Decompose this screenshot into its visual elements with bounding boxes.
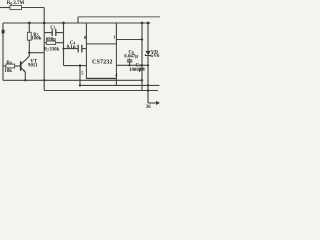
wire pin1 horizontal y=39.5	[116, 39, 142, 41]
wire jog link x=78	[77, 17, 79, 23]
svg-text:100k: 100k	[31, 37, 41, 42]
transistor Q1 collector lead	[21, 56, 29, 64]
svg-text:1000p: 1000p	[129, 68, 142, 73]
svg-text:R6 2.7M: R6 2.7M	[7, 1, 25, 6]
svg-text:R7330k: R7330k	[44, 48, 60, 53]
transistor Q1 emitter arrow	[23, 70, 26, 73]
wire bottom line y=90.5	[44, 90, 158, 92]
wire C7 rail upper x=142	[141, 23, 143, 68]
wire top bus y=23	[3, 22, 150, 24]
wire pin4 stub down	[115, 78, 117, 85]
node bus end	[141, 79, 143, 81]
node zener top	[147, 22, 150, 25]
svg-text:0.047µ: 0.047µ	[124, 55, 138, 60]
svg-text:C5: C5	[50, 26, 56, 31]
node pin5 drop	[79, 64, 81, 66]
capacitor C7 plates	[140, 68, 145, 70]
capacitor C5 plates	[52, 29, 56, 36]
node pin5 drop bottom	[79, 84, 81, 86]
transistor Q1 base bar	[20, 61, 22, 71]
wire bottom bus y=80.3	[3, 79, 142, 81]
node C7 rail top	[141, 22, 144, 25]
wire vertical rail x=44	[43, 8, 45, 81]
IC U1 CS7232 box	[86, 44, 116, 79]
node pin2 end	[147, 64, 149, 66]
wire pin2 horizontal y=65.3	[116, 64, 148, 66]
svg-text:R8: R8	[6, 61, 12, 66]
wire emitter vertical	[24, 72, 26, 80]
capacitor C6 plates	[127, 60, 132, 62]
wire R6 left lead	[0, 7, 10, 9]
node R5 top	[28, 22, 31, 25]
wire R8 right lead (base lead)	[15, 65, 21, 67]
wire R7 left lead	[44, 42, 46, 44]
wire R7 right lead	[56, 42, 64, 44]
node rail44 top	[43, 22, 46, 25]
wire output corner y=103	[148, 102, 157, 104]
svg-text:0.1µ: 0.1µ	[67, 45, 76, 50]
wire C4 right lead	[82, 48, 87, 50]
resistor R5 body	[27, 32, 31, 40]
zener diode VD triangle	[146, 51, 151, 55]
svg-text:680p: 680p	[46, 38, 56, 43]
zener diode VD bar	[145, 54, 150, 57]
wire right rail x=63.5	[63, 23, 65, 66]
svg-text:1: 1	[113, 35, 115, 40]
wire R6 right lead	[22, 7, 45, 9]
transistor Q1 emitter lead	[21, 68, 25, 72]
node rail44 bus	[43, 79, 45, 81]
wire zener rail upper	[147, 23, 149, 51]
wire collector node horizontal	[29, 52, 44, 54]
node collector	[28, 52, 30, 54]
background	[0, 0, 160, 110]
wire C4 left lead	[64, 48, 79, 50]
node emitter bus	[24, 79, 26, 81]
node pin1 wire end	[141, 38, 143, 40]
wire zener rail lower	[147, 56, 149, 104]
node C4 tee	[62, 48, 64, 50]
wire C5 right lead	[56, 32, 64, 34]
IC U1 bottom edge emphasis	[86, 78, 116, 80]
resistor R8 body	[6, 64, 15, 68]
wire C6 bottom lead	[129, 62, 131, 65]
node pin2 c7 cross	[141, 64, 143, 66]
node zener85	[147, 84, 149, 86]
svg-text:9011: 9011	[28, 63, 38, 68]
svg-text:CS7232: CS7232	[92, 59, 113, 65]
wire R8 left lead	[3, 65, 6, 67]
svg-text:36: 36	[146, 105, 151, 110]
touch electrode pad	[2, 30, 5, 34]
wire x=44 lower drop	[43, 80, 45, 90]
wire C5 left lead	[44, 32, 52, 34]
junction dots	[24, 22, 149, 92]
svg-text:10k: 10k	[4, 69, 12, 74]
node zener bottom line	[147, 89, 149, 91]
wire pin5 drop x=80	[79, 66, 81, 86]
node C6 bottom	[128, 64, 130, 66]
wire C6 top nub	[129, 59, 131, 60]
wire left rail x=3	[2, 23, 4, 80]
resistor R7 body	[46, 41, 55, 44]
resistor R6 body	[10, 5, 22, 9]
wire R5 bottom lead	[28, 40, 30, 56]
wire pin5 horizontal	[64, 65, 87, 67]
svg-text:5V6: 5V6	[151, 54, 160, 59]
capacitor C4 plates	[78, 45, 82, 53]
wire C7 rail lower x=142	[141, 70, 143, 90]
output arrow	[156, 101, 160, 105]
wire pin1 stub	[115, 23, 117, 44]
node rail63 top	[62, 22, 65, 25]
wire pin4 horizontal y=85.4	[80, 84, 160, 86]
wire top bus y=17	[78, 16, 160, 18]
wire pin8 stub	[85, 23, 87, 44]
wire R5 top lead	[28, 23, 30, 32]
